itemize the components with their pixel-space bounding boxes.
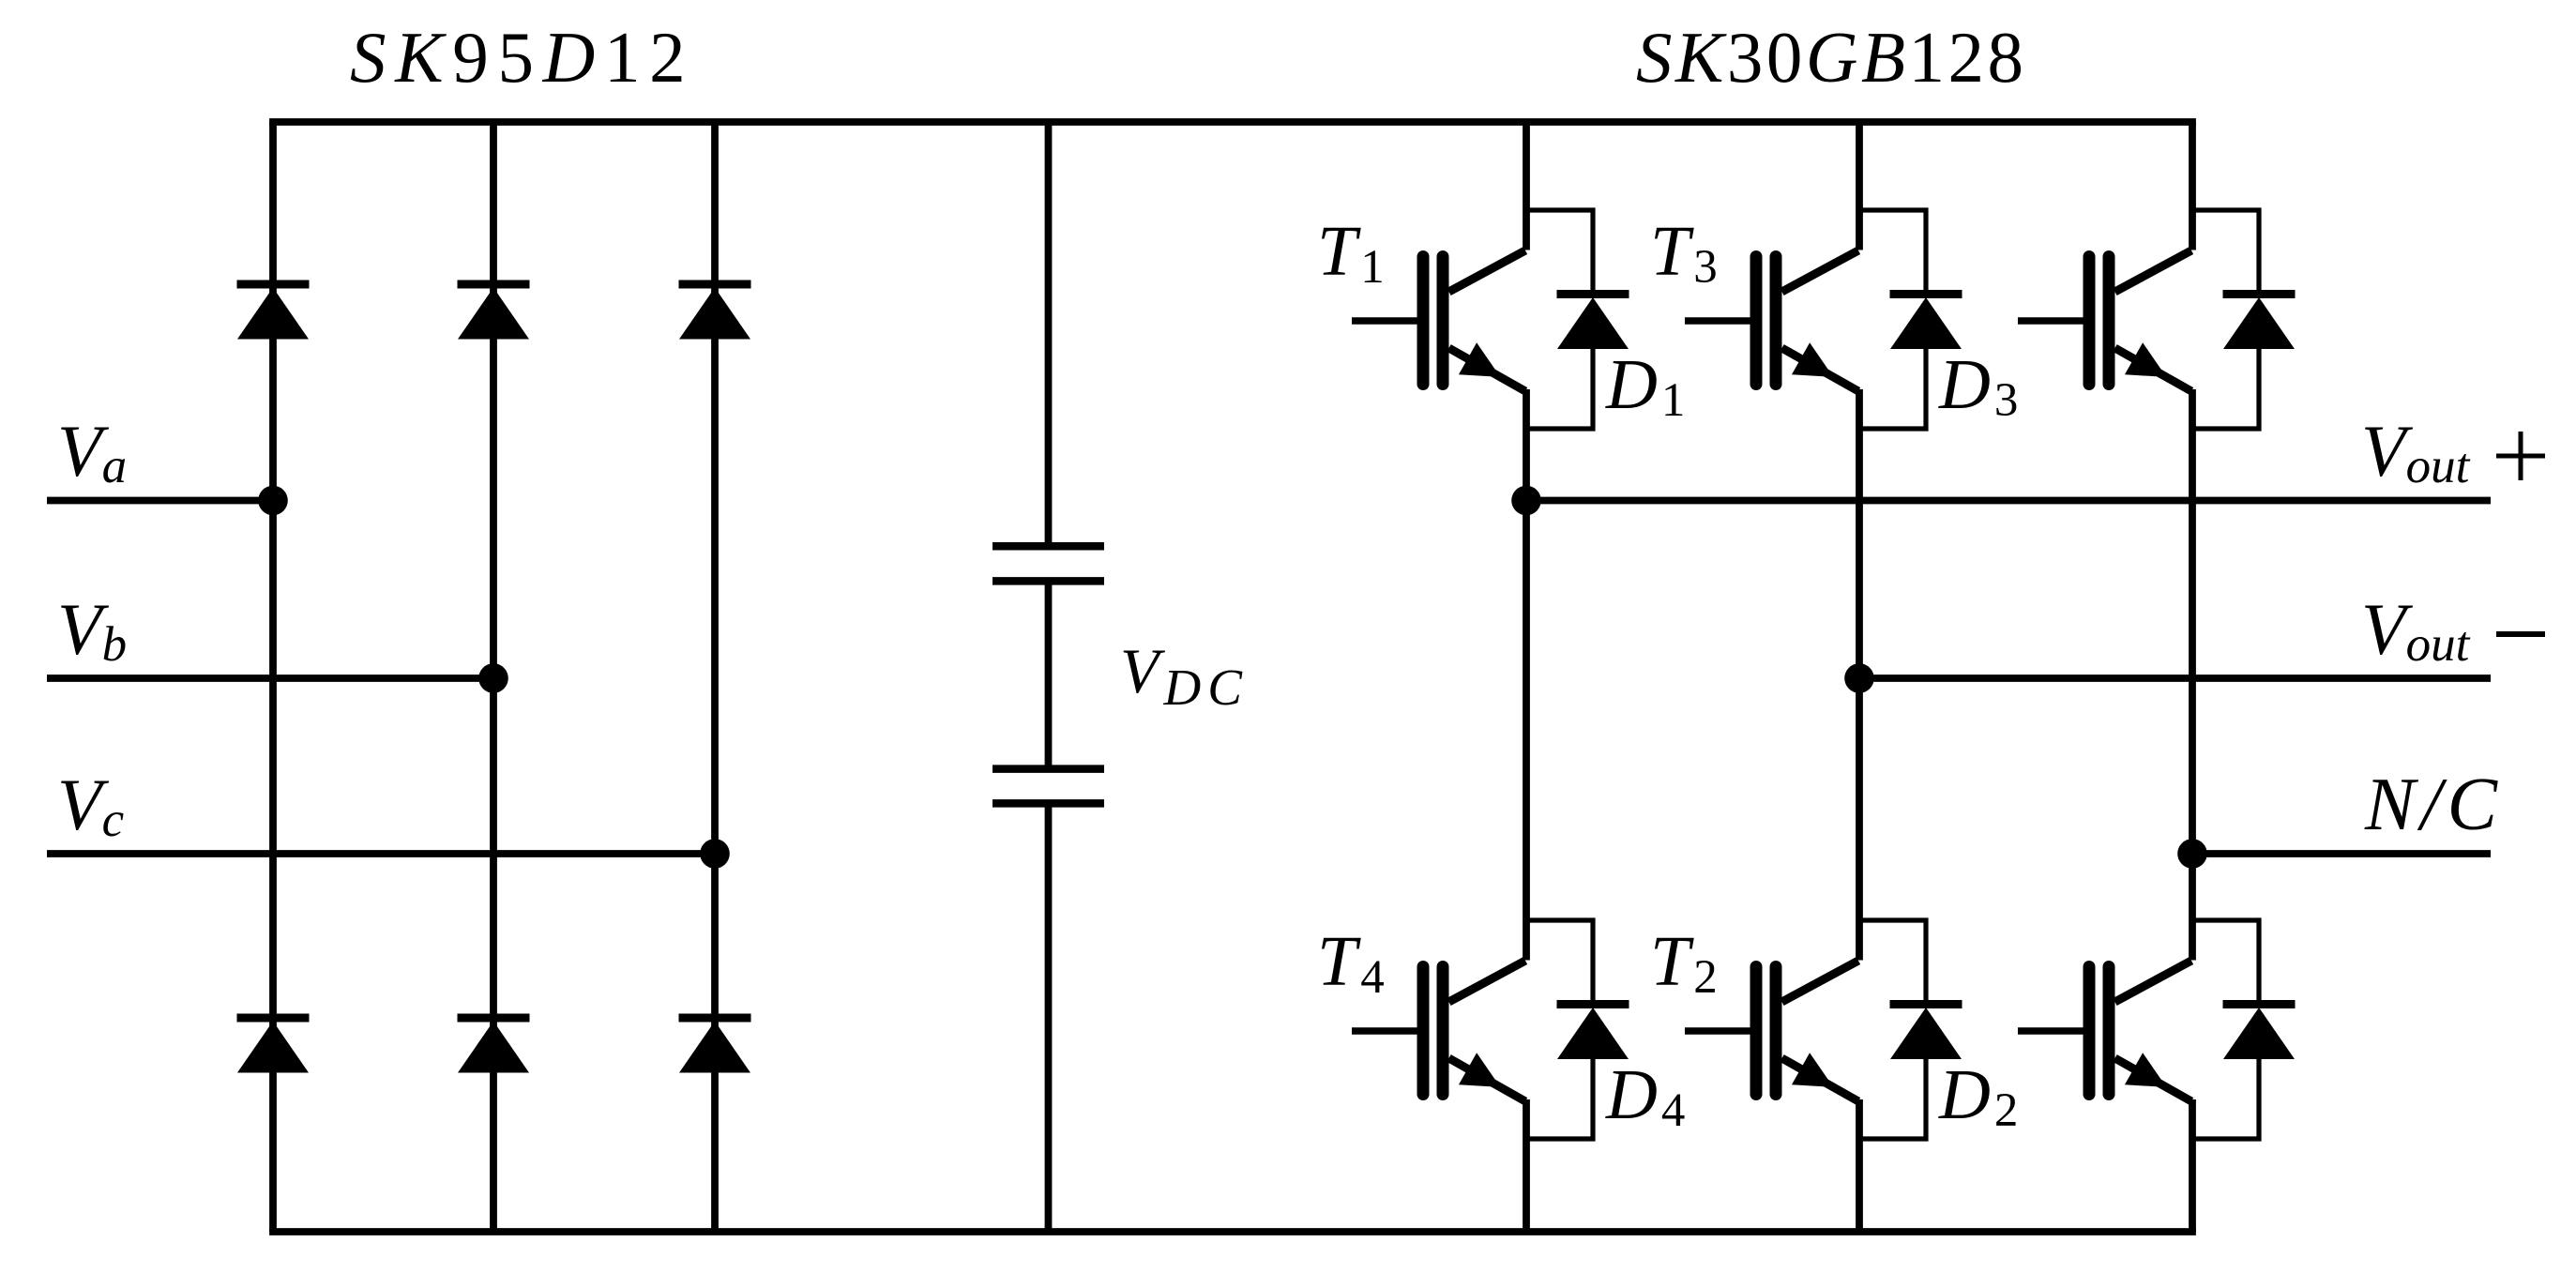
wire T1 emitter to node xyxy=(1523,389,1530,501)
node Vc junction xyxy=(700,839,730,869)
svg-text:Vb: Vb xyxy=(57,588,127,672)
node output N/C junction xyxy=(2177,839,2207,869)
node output Vout- junction xyxy=(1844,663,1874,693)
wire inverter leg 2 mid to bottom IGBT xyxy=(1856,678,1863,961)
svg-text:Vc: Vc xyxy=(57,764,124,847)
wire T2 emitter to bottom bus xyxy=(1856,1099,1863,1232)
module label SK30GB128 xyxy=(1636,17,2027,98)
label D3 xyxy=(1938,345,2018,427)
wire inverter leg 2 collector (top) xyxy=(1856,122,1863,250)
diode rectifier bottom leg b xyxy=(458,1018,530,1073)
wire Vc input xyxy=(47,850,715,857)
node Vb junction xyxy=(478,663,508,693)
wire capacitor branch lower xyxy=(1045,803,1053,1232)
transistor top IGBT leg 3 (IGBT) xyxy=(2018,250,2191,391)
transistor T3 (IGBT) xyxy=(1685,250,1858,391)
diode D4 xyxy=(1557,1005,1629,1060)
wire inverter leg 1 collector (top) xyxy=(1523,122,1530,250)
label N/C xyxy=(2364,764,2503,846)
svg-text:T4: T4 xyxy=(1317,922,1385,1004)
svg-text:Va: Va xyxy=(57,410,127,493)
wire D1 cathode branch xyxy=(1526,210,1593,295)
svg-text:T3: T3 xyxy=(1650,212,1718,294)
label Vout+ text xyxy=(2361,410,2471,493)
wire inverter leg 1 mid to bottom IGBT xyxy=(1523,501,1530,961)
node output Vout+ junction xyxy=(1511,486,1541,516)
diode rectifier bottom leg c xyxy=(679,1018,751,1073)
svg-text:T2: T2 xyxy=(1650,922,1718,1004)
wire top DC bus xyxy=(269,118,2196,126)
wire D3 cathode branch xyxy=(1859,210,1926,295)
svg-text:D4: D4 xyxy=(1605,1055,1685,1137)
node Va junction xyxy=(258,486,288,516)
wire T4 emitter to bottom bus xyxy=(1523,1099,1530,1232)
wire D2 anode branch xyxy=(1859,1055,1926,1139)
transistor bottom IGBT leg 3 (IGBT) xyxy=(2018,961,2191,1101)
wire bottom diode leg 3 anode branch xyxy=(2192,1055,2259,1139)
wire capacitor branch middle xyxy=(1045,581,1053,768)
wire D4 cathode branch xyxy=(1526,920,1593,1005)
wire Va input xyxy=(47,497,273,505)
diode D3 xyxy=(1890,295,1962,350)
wire rectifier leg c vertical xyxy=(711,122,719,1232)
wire output Vout+ xyxy=(1526,497,2491,505)
label T2 xyxy=(1650,922,1718,1004)
label VDC xyxy=(1120,635,1249,716)
label Vout- minus sign xyxy=(2496,631,2545,637)
label D2 xyxy=(1938,1055,2018,1137)
label D4 xyxy=(1605,1055,1685,1137)
label Vout- text xyxy=(2361,588,2471,672)
wire bottom DC bus xyxy=(269,1228,2196,1235)
wire D2 cathode branch xyxy=(1859,920,1926,1005)
transistor T2 (IGBT) xyxy=(1685,961,1858,1101)
svg-text:SK30GB128: SK30GB128 xyxy=(1636,17,2027,98)
wire rectifier leg a vertical xyxy=(269,122,277,1232)
capacitor C2 xyxy=(993,769,1104,804)
label Vout+ plus sign xyxy=(2496,432,2545,480)
wire capacitor branch upper xyxy=(1045,122,1053,546)
svg-text:N/C: N/C xyxy=(2364,764,2503,846)
label D1 xyxy=(1605,345,1685,427)
label T3 xyxy=(1650,212,1718,294)
label Va xyxy=(57,410,127,493)
wire rectifier leg b vertical xyxy=(490,122,497,1232)
capacitor C1 xyxy=(993,546,1104,581)
wire top diode leg 3 cathode branch xyxy=(2192,210,2259,295)
wire top diode leg 3 anode branch xyxy=(2192,345,2259,429)
wire inverter leg 3 collector (top) xyxy=(2189,122,2196,250)
label T1 xyxy=(1317,212,1385,294)
transistor T1 (IGBT) xyxy=(1352,250,1525,391)
label T4 xyxy=(1317,922,1385,1004)
svg-text:VDC: VDC xyxy=(1120,635,1249,716)
wire Vb input xyxy=(47,674,493,682)
svg-text:D2: D2 xyxy=(1938,1055,2018,1137)
diode D2 xyxy=(1890,1005,1962,1060)
svg-text:D1: D1 xyxy=(1605,345,1685,427)
wire output Vout- xyxy=(1859,674,2491,682)
diode rectifier top leg a xyxy=(237,284,310,340)
diode D1 xyxy=(1557,295,1629,350)
diode rectifier bottom leg a xyxy=(237,1018,310,1073)
svg-text:SK95D12: SK95D12 xyxy=(350,17,694,98)
svg-text:Vout: Vout xyxy=(2361,588,2471,672)
wire bottom diode leg 3 cathode branch xyxy=(2192,920,2259,1005)
diode rectifier top leg b xyxy=(458,284,530,340)
wire output N/C xyxy=(2192,850,2491,857)
wire D3 anode branch xyxy=(1859,345,1926,429)
svg-text:Vout: Vout xyxy=(2361,410,2471,493)
label Vc xyxy=(57,764,124,847)
svg-text:T1: T1 xyxy=(1317,212,1385,294)
wire D4 anode branch xyxy=(1526,1055,1593,1139)
diode rectifier top leg c xyxy=(679,284,751,340)
wire top IGBT leg 3 emitter to node xyxy=(2189,389,2196,854)
module label SK95D12 xyxy=(350,17,694,98)
wire D1 anode branch xyxy=(1526,345,1593,429)
diode top diode leg 3 xyxy=(2223,295,2296,350)
wire T3 emitter to node xyxy=(1856,389,1863,678)
diode bottom diode leg 3 xyxy=(2223,1005,2296,1060)
wire inverter leg 3 mid to bottom IGBT xyxy=(2189,854,2196,961)
label Vb xyxy=(57,588,127,672)
wire bottom IGBT leg 3 emitter to bottom bus xyxy=(2189,1099,2196,1232)
transistor T4 (IGBT) xyxy=(1352,961,1525,1101)
svg-text:D3: D3 xyxy=(1938,345,2018,427)
